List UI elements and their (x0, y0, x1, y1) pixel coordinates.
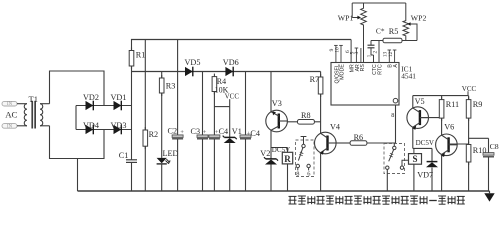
wire (320, 72, 322, 78)
wire (431, 168, 433, 191)
svg-text:V2: V2 (260, 149, 270, 158)
wire (177, 40, 179, 135)
svg-text:8: 8 (296, 170, 299, 177)
capacitor C1 (119, 151, 137, 163)
wire (431, 148, 433, 161)
resistor R11 (439, 97, 459, 122)
transistor V4 (315, 122, 341, 154)
resistor R3 (159, 75, 175, 96)
svg-text:R6: R6 (354, 133, 364, 142)
transistor V6 (436, 122, 458, 157)
resistor R7 (310, 74, 323, 97)
IC pin 9 stub (329, 45, 338, 62)
wire (336, 142, 350, 144)
wire (287, 121, 297, 123)
svg-text:VD3: VD3 (111, 121, 127, 130)
wire (468, 96, 470, 100)
resistor R8 (298, 111, 315, 124)
wire (131, 40, 133, 51)
wire A (371, 40, 417, 42)
svg-text:3: 3 (354, 51, 360, 54)
label R4 10K (215, 77, 229, 94)
pin 8 label (391, 112, 394, 119)
svg-text:VD2: VD2 (83, 93, 99, 102)
svg-text:C1: C1 (119, 151, 129, 160)
svg-text:+: + (203, 129, 207, 136)
svg-text:C3: C3 (191, 127, 201, 136)
resistor R10 (466, 142, 486, 166)
wire (320, 153, 322, 191)
wire (202, 139, 204, 191)
svg-text:AC: AC (5, 110, 17, 120)
wire (413, 164, 415, 191)
svg-text:R: R (284, 154, 291, 164)
svg-text:R11: R11 (446, 100, 459, 109)
IC pin 2 digit (373, 51, 379, 54)
wire (245, 72, 247, 135)
wire (488, 157, 490, 191)
wire (314, 121, 320, 123)
IC pin names (334, 64, 399, 84)
svg-text:R3: R3 (166, 82, 176, 91)
capacitor C3 (191, 127, 209, 139)
IC pin 5 stub (350, 48, 359, 63)
relay coil R (DC5V) (272, 146, 293, 164)
VCC wire (413, 95, 469, 97)
resistor R9 (466, 97, 482, 122)
svg-text:T1: T1 (29, 94, 38, 104)
svg-text:VD6: VD6 (223, 58, 239, 67)
caption text (289, 196, 465, 204)
terminal IN (top) (2, 101, 17, 107)
svg-text:V4: V4 (330, 122, 340, 131)
svg-text:VD5: VD5 (185, 58, 201, 67)
wire (78, 190, 490, 192)
diode VD3 (111, 121, 127, 134)
wire (132, 71, 321, 73)
wire (449, 143, 469, 145)
wire (287, 164, 289, 191)
zener V1 (223, 127, 242, 143)
wire (386, 169, 388, 191)
svg-text:WP2: WP2 (411, 13, 427, 22)
LED (157, 149, 179, 164)
capacitor C2 (168, 127, 185, 139)
svg-text:R2: R2 (149, 130, 159, 139)
wire (378, 41, 380, 63)
diode VD2 (83, 93, 99, 111)
svg-text:A: A (393, 64, 399, 68)
svg-text:VCC: VCC (462, 85, 477, 93)
wire (177, 139, 179, 191)
wire (229, 107, 231, 138)
net label VCC (right) (462, 85, 477, 96)
wire (213, 92, 215, 135)
wire (441, 154, 443, 191)
capacitor C* (368, 27, 385, 48)
wire (202, 72, 204, 135)
svg-text:RTC: RTC (378, 64, 384, 75)
resistor R4 (212, 74, 217, 95)
svg-text:C2: C2 (168, 127, 178, 136)
wire (50, 71, 105, 106)
svg-text:1: 1 (367, 54, 373, 57)
svg-text:R9: R9 (473, 100, 483, 109)
wire (131, 162, 133, 191)
wire (441, 96, 443, 100)
resistor R6 (350, 133, 367, 145)
capacitor C8 (483, 142, 499, 157)
wire (161, 164, 163, 191)
relay coil S (DC5V) (409, 139, 434, 164)
wire (144, 40, 146, 131)
diode VD6 (223, 58, 239, 76)
zener V2 (260, 149, 278, 165)
svg-text:VCC: VCC (225, 93, 240, 101)
svg-text:IN: IN (7, 102, 13, 107)
IC pin 12 stub (388, 50, 397, 63)
svg-text:V5: V5 (415, 97, 425, 106)
IC U1 4541 box (331, 63, 416, 106)
wire (213, 139, 215, 191)
svg-text:DC5V: DC5V (416, 139, 434, 147)
wire (161, 72, 163, 79)
svg-text:R5: R5 (389, 27, 399, 36)
ground (484, 191, 494, 202)
svg-text:VD1: VD1 (111, 93, 127, 102)
wire (370, 48, 372, 55)
diode VD5 (185, 58, 201, 76)
node wire R4-V1 (214, 106, 229, 108)
wire (270, 165, 272, 192)
svg-text:C8: C8 (490, 142, 499, 151)
IC pin 3 stub (354, 48, 361, 63)
label AC (5, 110, 17, 120)
IC pin 1 digit (367, 54, 373, 57)
relay contact box 1 (296, 137, 315, 178)
svg-text:R8: R8 (301, 111, 311, 120)
svg-text:VD7: VD7 (417, 170, 433, 179)
capacitor C4 (209, 127, 228, 139)
wire (363, 28, 365, 63)
wire (50, 126, 105, 159)
label +C5 (247, 129, 260, 138)
svg-text:8: 8 (391, 112, 394, 119)
wire (270, 130, 272, 159)
transistor V3 (266, 99, 288, 132)
resistor R2 (143, 127, 158, 149)
net label VCC (225, 93, 240, 107)
svg-text:C4: C4 (219, 127, 229, 136)
svg-text:4541: 4541 (401, 72, 416, 81)
wire (320, 94, 322, 134)
svg-text:+: + (180, 129, 184, 136)
resistor R1 (129, 48, 145, 70)
diode VD7 (417, 162, 438, 180)
wire (395, 105, 397, 143)
svg-text:V3: V3 (272, 99, 282, 108)
svg-text:R1: R1 (136, 51, 146, 60)
IC pin 13 stub (383, 50, 392, 63)
wire (367, 142, 396, 144)
wire (412, 127, 414, 148)
svg-text:RS: RS (360, 64, 366, 72)
potentiometer WP1 (338, 3, 367, 28)
svg-text:10: 10 (334, 47, 340, 53)
wire (17, 103, 27, 105)
svg-text:MODE: MODE (340, 64, 346, 80)
wire (40, 103, 50, 105)
svg-text:V6: V6 (444, 122, 454, 131)
svg-text:WP1: WP1 (338, 13, 354, 22)
wire (144, 146, 146, 191)
svg-text:IN: IN (7, 124, 13, 129)
wire (229, 143, 231, 191)
wire C8 branch (469, 137, 489, 139)
IC pin 6 wire (MR from rail) (345, 40, 351, 63)
svg-text:R7: R7 (310, 75, 320, 84)
diode VD1 (111, 93, 127, 111)
wire (77, 159, 79, 192)
relay contact box 2 (384, 143, 409, 174)
svg-text:LED: LED (163, 149, 179, 158)
wire (76, 129, 132, 131)
IC output bubble (393, 98, 398, 103)
svg-text:12: 12 (388, 52, 394, 58)
svg-text:VD4: VD4 (83, 121, 99, 130)
wire (468, 162, 470, 191)
wire (412, 96, 414, 109)
resistor R5 (383, 27, 402, 43)
wire (131, 66, 133, 160)
wire (245, 139, 247, 191)
svg-text:S: S (412, 154, 417, 164)
node wire V3-relay (271, 147, 288, 149)
capacitor C5 (240, 135, 251, 139)
IC pin 10 stub (334, 45, 343, 62)
wire (76, 105, 132, 107)
wire (131, 39, 351, 41)
wire (352, 2, 406, 4)
wire (40, 125, 50, 127)
svg-text:+: + (215, 129, 219, 136)
terminal IN (bottom) (2, 124, 17, 130)
svg-text:C*: C* (376, 27, 385, 36)
transistor V5 (407, 97, 429, 130)
transformer T1 (24, 94, 43, 128)
svg-text:C4: C4 (250, 129, 260, 138)
potentiometer WP2 (403, 3, 426, 41)
wire (75, 106, 77, 130)
svg-text:2: 2 (373, 51, 379, 54)
wire (270, 72, 272, 112)
wire (17, 125, 27, 127)
svg-text:6: 6 (307, 170, 310, 177)
diode VD4 (83, 121, 99, 134)
wire (420, 117, 442, 119)
